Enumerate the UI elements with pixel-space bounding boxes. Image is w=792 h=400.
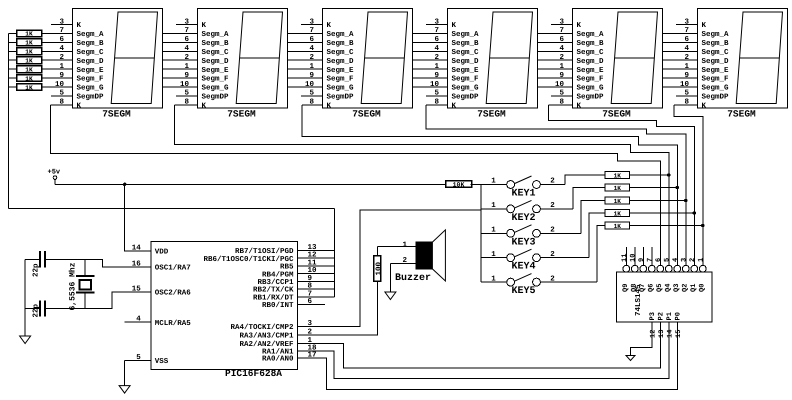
svg-text:Segm_F: Segm_F: [452, 75, 480, 84]
wire K net display DS2 to 74LS145: [175, 105, 669, 265]
svg-text:Segm_D: Segm_D: [577, 57, 605, 66]
svg-text:2: 2: [550, 201, 555, 210]
svg-text:Buzzer: Buzzer: [395, 273, 431, 284]
svg-text:7: 7: [309, 27, 314, 35]
svg-text:4: 4: [434, 45, 439, 53]
svg-text:SegmDP: SegmDP: [77, 93, 105, 102]
svg-text:P2: P2: [658, 312, 666, 320]
svg-text:Segm_E: Segm_E: [77, 66, 105, 75]
svg-text:7SEGM: 7SEGM: [352, 109, 381, 120]
svg-text:1K: 1K: [614, 210, 622, 217]
svg-text:2: 2: [59, 53, 64, 62]
power +5V: [48, 169, 61, 185]
svg-text:1K: 1K: [25, 66, 33, 73]
svg-text:2: 2: [434, 53, 439, 62]
ground 74LS145: [626, 356, 635, 361]
svg-text:1K: 1K: [25, 58, 33, 65]
svg-text:Segm_E: Segm_E: [702, 66, 730, 75]
svg-text:100: 100: [374, 261, 383, 275]
resistor R14 1K: [605, 222, 703, 230]
svg-text:15: 15: [675, 330, 683, 338]
svg-text:6: 6: [684, 35, 689, 44]
svg-text:Segm_F: Segm_F: [77, 75, 105, 84]
svg-text:10: 10: [680, 80, 690, 89]
svg-text:Segm_A: Segm_A: [327, 30, 355, 39]
svg-text:RB7/T1OSI/PGD: RB7/T1OSI/PGD: [235, 247, 294, 256]
7-segment display DS1 7SEGM: [51, 9, 163, 120]
wire crystal ground bus: [24, 259, 26, 336]
decoder U2 74LS145: [617, 247, 713, 338]
svg-text:1K: 1K: [25, 75, 33, 82]
svg-text:RB2/TX/CK: RB2/TX/CK: [253, 286, 294, 295]
svg-text:7: 7: [559, 27, 564, 35]
svg-text:Segm_C: Segm_C: [452, 48, 480, 57]
wire KEY3 to scan resistor: [581, 201, 605, 234]
svg-text:6: 6: [184, 35, 189, 44]
buzzer LS1: [377, 230, 445, 284]
svg-text:Q4: Q4: [665, 284, 673, 292]
wire segment bus Segm_G: [42, 86, 698, 88]
svg-text:2: 2: [559, 53, 564, 62]
svg-text:2: 2: [550, 274, 555, 283]
svg-text:2: 2: [550, 250, 555, 259]
svg-text:7SEGM: 7SEGM: [102, 109, 131, 120]
svg-text:K: K: [452, 22, 457, 30]
junction +5V VDD: [123, 183, 126, 186]
svg-text:KEY3: KEY3: [511, 237, 535, 248]
svg-text:Segm_C: Segm_C: [327, 48, 355, 57]
svg-text:1: 1: [491, 202, 496, 210]
svg-text:Segm_F: Segm_F: [702, 75, 730, 84]
capacitor C2 22p: [25, 301, 45, 318]
svg-text:6,5536 Mhz: 6,5536 Mhz: [69, 262, 78, 310]
svg-text:KEY1: KEY1: [511, 189, 535, 200]
resistor R1 1K: [8, 30, 41, 38]
7-segment display DS4 7SEGM: [426, 9, 538, 120]
svg-text:5: 5: [59, 90, 64, 98]
svg-text:1: 1: [309, 63, 314, 71]
ground buzzer: [385, 292, 396, 300]
wire KEY4 to scan resistor: [589, 213, 605, 258]
svg-text:Segm_G: Segm_G: [452, 84, 480, 93]
svg-text:RB0/INT: RB0/INT: [262, 301, 294, 310]
svg-text:1: 1: [559, 63, 564, 71]
svg-text:Q2: Q2: [682, 284, 690, 292]
svg-text:5: 5: [684, 90, 689, 98]
svg-text:2: 2: [684, 53, 689, 62]
svg-text:P0: P0: [675, 312, 683, 320]
svg-text:KEY2: KEY2: [511, 213, 535, 224]
svg-text:Segm_D: Segm_D: [327, 57, 355, 66]
svg-text:RA0/AN0: RA0/AN0: [262, 355, 294, 364]
wire segment bus Segm_A: [42, 32, 698, 34]
wire segment bus Segm_F: [42, 77, 698, 79]
svg-text:Segm_G: Segm_G: [327, 84, 355, 93]
svg-text:6: 6: [309, 35, 314, 44]
svg-text:Segm_C: Segm_C: [702, 48, 730, 57]
svg-text:SegmDP: SegmDP: [702, 93, 730, 102]
svg-text:6: 6: [559, 35, 564, 44]
svg-text:10: 10: [180, 80, 190, 89]
junction scan line 5: [701, 224, 704, 227]
7-segment display DS5 7SEGM: [549, 9, 663, 120]
wire K net display DS3 to 74LS145: [302, 105, 677, 265]
svg-text:1: 1: [434, 63, 439, 71]
svg-text:Q9: Q9: [622, 284, 630, 292]
svg-text:12: 12: [650, 330, 658, 338]
svg-text:9: 9: [638, 258, 646, 262]
wire left resistor bus vertical: [7, 33, 9, 208]
svg-text:RB6/T1OSC0/T1CKI/PGC: RB6/T1OSC0/T1CKI/PGC: [203, 255, 294, 264]
svg-text:Segm_C: Segm_C: [77, 48, 105, 57]
wire K net display DS1 to 74LS145: [51, 105, 661, 265]
svg-text:7SEGM: 7SEGM: [227, 109, 256, 120]
wire K net display DS6 to 74LS145: [674, 105, 703, 265]
ground crystal: [20, 336, 31, 344]
svg-text:1K: 1K: [25, 31, 33, 38]
svg-text:KEY4: KEY4: [511, 262, 535, 273]
resistor R5 1K: [8, 66, 41, 74]
svg-text:Segm_F: Segm_F: [202, 75, 230, 84]
svg-text:Segm_A: Segm_A: [202, 30, 230, 39]
svg-text:1K: 1K: [614, 198, 622, 205]
svg-text:74LS145: 74LS145: [634, 284, 643, 316]
svg-text:6: 6: [434, 35, 439, 44]
resistor R7 1K: [8, 84, 41, 92]
svg-text:K: K: [452, 102, 457, 110]
junction scan line 2: [676, 186, 679, 189]
svg-text:K: K: [202, 102, 207, 110]
svg-text:5: 5: [559, 90, 564, 98]
svg-text:Q5: Q5: [656, 284, 664, 292]
svg-text:10: 10: [305, 80, 315, 89]
svg-text:13: 13: [658, 330, 666, 338]
svg-text:Segm_G: Segm_G: [77, 84, 105, 93]
junction scan line 3: [684, 199, 687, 202]
svg-text:6: 6: [655, 258, 663, 262]
svg-text:RA3/AN3/CMP1: RA3/AN3/CMP1: [239, 332, 294, 341]
svg-text:MCLR/RA5: MCLR/RA5: [155, 319, 192, 328]
svg-text:1K: 1K: [25, 84, 33, 91]
svg-text:Segm_E: Segm_E: [327, 66, 355, 75]
wire VSS to ground: [124, 360, 126, 385]
wire bus to PIC RB pins horizontal: [8, 208, 334, 210]
svg-text:14: 14: [667, 330, 675, 338]
ground VSS: [119, 386, 130, 394]
svg-text:Segm_C: Segm_C: [577, 48, 605, 57]
resistor R12 1K: [605, 197, 686, 205]
svg-text:RB3/CCP1: RB3/CCP1: [257, 278, 294, 287]
svg-text:10: 10: [555, 80, 565, 89]
wire OSC1 to crystal: [45, 259, 151, 267]
svg-text:1K: 1K: [614, 185, 622, 192]
svg-text:10: 10: [55, 80, 65, 89]
svg-text:SegmDP: SegmDP: [577, 93, 605, 102]
svg-text:9: 9: [59, 71, 64, 80]
svg-text:K: K: [327, 102, 332, 110]
svg-text:2: 2: [184, 53, 189, 62]
svg-text:Segm_E: Segm_E: [577, 66, 605, 75]
7-segment display DS6 7SEGM: [674, 9, 788, 120]
svg-text:10K: 10K: [453, 181, 465, 188]
svg-text:Segm_G: Segm_G: [202, 84, 230, 93]
svg-text:2: 2: [689, 258, 697, 262]
svg-text:9: 9: [559, 71, 564, 80]
svg-text:5: 5: [309, 90, 314, 98]
svg-text:K: K: [77, 22, 82, 30]
svg-text:Segm_B: Segm_B: [577, 39, 605, 48]
svg-text:7: 7: [684, 27, 689, 35]
svg-text:P3: P3: [649, 312, 657, 320]
svg-text:1: 1: [491, 178, 496, 186]
svg-text:Segm_B: Segm_B: [452, 39, 480, 48]
svg-text:7SEGM: 7SEGM: [477, 109, 506, 120]
svg-text:4: 4: [672, 258, 680, 262]
svg-text:2: 2: [550, 226, 555, 235]
svg-text:Segm_B: Segm_B: [202, 39, 230, 48]
svg-text:1K: 1K: [614, 223, 622, 230]
wire segment bus Segm_E: [42, 68, 698, 70]
svg-text:K: K: [577, 22, 582, 30]
svg-text:2: 2: [402, 256, 407, 265]
svg-text:RB1/RX/DT: RB1/RX/DT: [253, 293, 294, 302]
wire segment bus Segm_C: [42, 50, 698, 52]
svg-text:1: 1: [697, 258, 705, 262]
svg-text:K: K: [702, 22, 707, 30]
svg-text:K: K: [327, 22, 332, 30]
svg-text:4: 4: [309, 45, 314, 53]
svg-text:7: 7: [434, 27, 439, 35]
svg-text:Segm_B: Segm_B: [702, 39, 730, 48]
svg-text:Segm_B: Segm_B: [77, 39, 105, 48]
svg-text:4: 4: [59, 45, 64, 53]
resistor R11 1K: [605, 184, 677, 192]
resistor R13 1K: [605, 210, 694, 218]
svg-text:9: 9: [184, 71, 189, 80]
svg-text:K: K: [577, 102, 582, 110]
svg-text:5: 5: [663, 258, 671, 262]
svg-text:Segm_E: Segm_E: [452, 66, 480, 75]
crystal Y1 6.5536 MHz: [69, 259, 95, 310]
wire KEY1 to scan resistor: [565, 175, 605, 185]
svg-text:Segm_C: Segm_C: [202, 48, 230, 57]
svg-text:1: 1: [491, 251, 496, 259]
wire +5V to VDD pin 14: [125, 184, 151, 251]
svg-text:9: 9: [309, 71, 314, 80]
svg-text:11: 11: [621, 254, 629, 262]
svg-text:1K: 1K: [614, 172, 622, 179]
svg-text:7SEGM: 7SEGM: [602, 109, 631, 120]
svg-text:Segm_A: Segm_A: [77, 30, 105, 39]
wire RA3 to buzzer resistor: [298, 281, 378, 335]
7-segment display DS2 7SEGM: [175, 9, 288, 120]
svg-text:VSS: VSS: [155, 357, 169, 366]
svg-text:Segm_F: Segm_F: [327, 75, 355, 84]
svg-text:Segm_G: Segm_G: [577, 84, 605, 93]
resistor R4 1K: [8, 57, 41, 65]
svg-text:2: 2: [550, 177, 555, 186]
svg-text:4: 4: [684, 45, 689, 53]
svg-text:+5v: +5v: [48, 169, 61, 177]
svg-text:Segm_A: Segm_A: [452, 30, 480, 39]
svg-text:Q0: Q0: [699, 284, 707, 292]
svg-text:Segm_G: Segm_G: [702, 84, 730, 93]
svg-text:Segm_B: Segm_B: [327, 39, 355, 48]
svg-text:Q3: Q3: [673, 284, 681, 292]
svg-text:RB4/PGM: RB4/PGM: [262, 270, 294, 279]
junction scan line 1: [667, 173, 670, 176]
svg-text:4: 4: [184, 45, 189, 53]
svg-text:Segm_D: Segm_D: [77, 57, 105, 66]
wire K net display DS4 to 74LS145: [426, 105, 686, 265]
svg-text:Q1: Q1: [690, 284, 698, 292]
svg-text:9: 9: [684, 71, 689, 80]
svg-text:7: 7: [646, 258, 654, 262]
svg-text:Segm_E: Segm_E: [202, 66, 230, 75]
svg-text:1: 1: [184, 63, 189, 71]
svg-text:1: 1: [684, 63, 689, 71]
svg-text:7: 7: [59, 27, 64, 35]
svg-text:SegmDP: SegmDP: [202, 93, 230, 102]
junction scan line 4: [693, 211, 696, 214]
switch KEY4: [481, 249, 589, 273]
svg-text:VDD: VDD: [155, 248, 169, 256]
svg-text:5: 5: [434, 90, 439, 98]
svg-text:PIC16F628A: PIC16F628A: [225, 368, 282, 379]
resistor R2 1K: [8, 39, 41, 47]
svg-text:1K: 1K: [25, 49, 33, 56]
switch KEY5: [481, 274, 597, 298]
resistor R9 10K: [446, 181, 481, 189]
svg-text:10: 10: [629, 254, 637, 262]
svg-text:Segm_A: Segm_A: [577, 30, 605, 39]
svg-text:RA4/TOCKI/CMP2: RA4/TOCKI/CMP2: [230, 323, 294, 332]
svg-text:3: 3: [680, 258, 688, 262]
svg-text:P1: P1: [666, 312, 674, 320]
wire key common bus vertical: [480, 184, 482, 282]
switch KEY2: [481, 200, 573, 224]
svg-text:1K: 1K: [25, 40, 33, 47]
svg-text:1: 1: [402, 241, 407, 249]
wire K net display DS5 to 74LS145: [549, 105, 695, 265]
svg-text:1: 1: [59, 63, 64, 71]
svg-text:K: K: [77, 102, 82, 110]
svg-text:SegmDP: SegmDP: [327, 93, 355, 102]
svg-text:22p: 22p: [32, 263, 41, 277]
svg-text:1: 1: [491, 227, 496, 235]
capacitor C1 22p: [25, 251, 45, 277]
svg-text:5: 5: [184, 90, 189, 98]
svg-text:Q6: Q6: [648, 284, 656, 292]
svg-text:10: 10: [430, 80, 440, 89]
wire 74LS145 pin 12 to ground: [631, 322, 653, 356]
svg-text:K: K: [202, 22, 207, 30]
wire +5V rail: [55, 183, 445, 185]
svg-text:7SEGM: 7SEGM: [727, 109, 756, 120]
wire RA2 to 74LS145 D2: [298, 322, 661, 368]
microcontroller U1 PIC16F628A: [125, 242, 335, 380]
wire RB bus vertical: [334, 209, 336, 297]
svg-text:Segm_D: Segm_D: [202, 57, 230, 66]
svg-text:OSC2/RA6: OSC2/RA6: [155, 288, 192, 297]
resistor R6 1K: [8, 75, 41, 83]
svg-text:7: 7: [184, 27, 189, 35]
wire RA1 to 74LS145 D1: [298, 322, 670, 379]
svg-text:SegmDP: SegmDP: [452, 93, 480, 102]
wire buzzer pin2 to ground: [389, 264, 391, 292]
svg-text:22p: 22p: [32, 303, 41, 317]
svg-text:1: 1: [491, 275, 496, 283]
resistor R3 1K: [8, 48, 41, 56]
svg-text:2: 2: [309, 53, 314, 62]
wire RA0 to 74LS145 D0: [298, 322, 678, 390]
wire RA4 to key common bus: [298, 210, 481, 326]
svg-text:4: 4: [559, 45, 564, 53]
wire KEY5 to scan resistor: [597, 226, 605, 283]
svg-text:OSC1/RA7: OSC1/RA7: [155, 264, 191, 273]
svg-text:9: 9: [434, 71, 439, 80]
switch KEY3: [481, 225, 581, 249]
svg-text:14: 14: [132, 244, 142, 252]
resistor R10 1K: [605, 172, 669, 180]
wire segment bus Segm_B: [42, 41, 698, 43]
wire OSC2 to crystal: [45, 292, 151, 309]
svg-text:Segm_D: Segm_D: [702, 57, 730, 66]
svg-text:Segm_F: Segm_F: [577, 75, 605, 84]
wire segment bus Segm_D: [42, 59, 698, 61]
svg-text:KEY5: KEY5: [511, 286, 535, 297]
switch KEY1: [481, 176, 565, 200]
svg-text:6: 6: [59, 35, 64, 44]
svg-text:K: K: [702, 102, 707, 110]
svg-text:Segm_D: Segm_D: [452, 57, 480, 66]
resistor R8 100: [374, 246, 384, 281]
svg-text:Segm_A: Segm_A: [702, 30, 730, 39]
wire KEY2 to scan resistor: [573, 188, 605, 209]
7-segment display DS3 7SEGM: [301, 9, 413, 120]
